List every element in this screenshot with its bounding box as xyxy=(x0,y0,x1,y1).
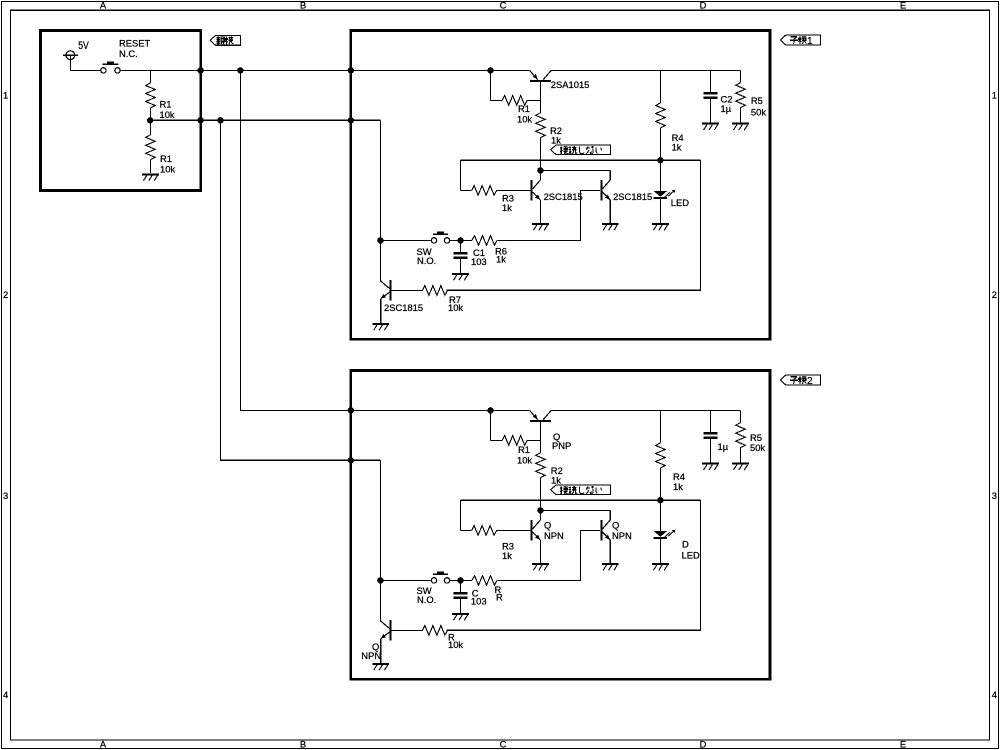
ground debounce capacitor xyxy=(452,613,469,615)
resistor R4 lead xyxy=(659,410,661,443)
svg-text:E: E xyxy=(900,0,906,11)
capacitor C2 xyxy=(704,92,718,95)
wire switch to C node xyxy=(450,579,461,581)
resistor R1 lower lead xyxy=(149,108,151,120)
svg-text:10k: 10k xyxy=(517,455,532,466)
svg-text:B: B xyxy=(300,0,306,11)
junction dot base feedback xyxy=(487,407,493,413)
wire R2 to collector node xyxy=(539,478,541,511)
svg-text:1k: 1k xyxy=(502,202,512,213)
wire signal drop to switch line xyxy=(379,460,381,580)
wire collector rail right xyxy=(551,69,740,71)
ground latch emitter xyxy=(372,663,389,665)
wire to R3 xyxy=(460,529,471,531)
ground emitter xyxy=(602,563,619,565)
capacitor C lead xyxy=(460,580,462,591)
ground capacitor xyxy=(702,463,719,465)
wire Q2 base path xyxy=(498,190,601,240)
wire collector node to Q2 xyxy=(540,509,610,511)
svg-text:50k: 50k xyxy=(751,106,766,117)
ground latch emitter xyxy=(372,323,389,325)
wire feedback to R1 xyxy=(491,439,503,441)
resistor R2 xyxy=(536,453,546,478)
wire R3 to Q1 base xyxy=(497,189,531,191)
wire R4 to LED node xyxy=(659,128,661,160)
junction dots on reset line xyxy=(197,117,203,123)
junction dot C node xyxy=(457,577,463,583)
wire feedback drop xyxy=(490,70,492,100)
svg-text:C: C xyxy=(500,738,507,749)
capacitor C xyxy=(454,592,468,595)
svg-text:N.C.: N.C. xyxy=(119,48,138,59)
capacitor C2 lead xyxy=(710,70,712,92)
resistor R5 xyxy=(736,423,746,448)
svg-text:1k: 1k xyxy=(502,550,512,561)
junction divider node xyxy=(147,117,153,123)
wire signal line into box xyxy=(351,119,381,121)
power symbol 5V xyxy=(63,51,78,71)
svg-text:2SC1815: 2SC1815 xyxy=(613,191,652,202)
transistor Q PNP xyxy=(530,410,552,440)
LED D xyxy=(654,530,676,538)
wire signal drop to switch line xyxy=(379,120,381,240)
ground emitter xyxy=(532,223,549,225)
resistor R1 (upper) xyxy=(146,83,156,108)
capacitor C1 lead xyxy=(460,240,462,251)
wire collector node to Q2 xyxy=(540,169,610,171)
svg-text:A: A xyxy=(100,0,107,11)
wire feedback loop horizontal xyxy=(460,159,700,161)
svg-text:103: 103 xyxy=(471,596,487,607)
svg-text:1µ: 1µ xyxy=(718,441,729,452)
wire R2 to collector node xyxy=(539,138,541,171)
svg-text:2: 2 xyxy=(992,289,997,300)
ground debounce capacitor xyxy=(452,273,469,275)
wire right feedback loop xyxy=(447,160,701,290)
svg-text:Q: Q xyxy=(612,520,619,531)
resistor R6 xyxy=(472,236,497,246)
flag oyaki label xyxy=(210,35,240,45)
pushbutton switch SW N.O. xyxy=(431,571,449,583)
svg-text:5V: 5V xyxy=(78,40,89,52)
svg-text:C: C xyxy=(500,0,507,11)
flag child unit 1 xyxy=(780,35,820,45)
resistor R2 xyxy=(536,113,546,138)
svg-text:1k: 1k xyxy=(672,142,682,153)
resistor R5 lead xyxy=(740,70,742,82)
transistor 2SA1015 PNP xyxy=(530,70,552,100)
resistor R base lead xyxy=(392,629,423,631)
LED LED xyxy=(654,190,676,198)
svg-text:LED: LED xyxy=(671,197,689,208)
vertical feed wire 5V to child2 xyxy=(240,70,529,410)
wire R5 to ground xyxy=(740,108,742,123)
ground capacitor xyxy=(702,123,719,125)
junction dot LED node xyxy=(657,497,663,503)
junction dot switch line left xyxy=(377,577,383,583)
svg-text:2SC1815: 2SC1815 xyxy=(384,302,423,313)
resistor R1 horizontal xyxy=(502,436,527,446)
wire R1 to base xyxy=(527,99,540,101)
wire Q2 base path xyxy=(498,530,601,580)
svg-text:10k: 10k xyxy=(448,302,463,313)
junction dot rail at box edge xyxy=(348,407,354,413)
resistor R1 (lower) xyxy=(146,135,156,160)
svg-text:N.O.: N.O. xyxy=(417,594,436,605)
resistor R1 horizontal xyxy=(502,96,527,106)
wire feedback loop left drop xyxy=(459,500,461,530)
resistor R3 xyxy=(472,526,497,536)
svg-text:10k: 10k xyxy=(160,164,175,175)
vertical feed wire signal to child2 xyxy=(221,120,381,460)
svg-text:10k: 10k xyxy=(160,109,175,120)
svg-text:2: 2 xyxy=(3,289,8,300)
svg-text:NPN: NPN xyxy=(544,530,564,541)
svg-text:2: 2 xyxy=(807,376,813,387)
transistor 2SC1815 NPN latch xyxy=(380,240,390,323)
svg-text:3: 3 xyxy=(3,490,8,501)
ground R5 xyxy=(732,123,749,125)
svg-text:50k: 50k xyxy=(750,442,765,453)
junction dot collector node xyxy=(537,167,543,173)
svg-text:R1: R1 xyxy=(518,444,530,455)
svg-text:1: 1 xyxy=(3,90,8,101)
wire R3 to Q1 base xyxy=(497,529,531,531)
svg-text:E: E xyxy=(900,738,906,749)
wire LED cathode xyxy=(659,199,661,223)
svg-text:PNP: PNP xyxy=(552,440,571,451)
pushbutton switch RESET N.C. xyxy=(101,61,121,73)
ground emitter xyxy=(532,563,549,565)
svg-text:A: A xyxy=(100,738,107,749)
svg-text:D: D xyxy=(700,0,707,11)
ground emitter xyxy=(602,223,619,225)
svg-text:N.O.: N.O. xyxy=(417,255,436,266)
resistor R1 second lower lead xyxy=(149,160,151,173)
svg-text:1k: 1k xyxy=(551,475,561,486)
svg-text:10k: 10k xyxy=(517,114,532,125)
transistor Q NPN latch xyxy=(380,580,390,663)
capacitor C lead xyxy=(710,410,712,432)
resistor R xyxy=(472,576,497,586)
transistor Q2 NPN Q NPN xyxy=(601,510,610,563)
junction dot switch line left xyxy=(377,237,383,243)
pushbutton switch SW N.O. xyxy=(431,231,449,243)
transistor Q1 NPN Q NPN xyxy=(532,510,541,563)
flag do-not-connect xyxy=(551,485,611,494)
junction dot signal at box edge xyxy=(348,117,354,123)
svg-text:1k: 1k xyxy=(496,253,506,264)
transistor Q1 NPN 2SC1815 xyxy=(532,170,541,223)
resistor R2 lead xyxy=(539,100,541,112)
resistor R7 base lead xyxy=(392,289,423,291)
junction dots on rail xyxy=(197,67,203,73)
wire feedback to R1 xyxy=(491,99,503,101)
wire to switch xyxy=(380,239,431,241)
junction dot collector node xyxy=(537,507,543,513)
wire LED anode xyxy=(659,500,661,531)
svg-text:R1: R1 xyxy=(518,103,530,114)
svg-text:10k: 10k xyxy=(448,639,463,650)
wire to R3 xyxy=(460,189,471,191)
junction dot signal at box edge xyxy=(348,457,354,463)
junction dot rail at box edge xyxy=(348,67,354,73)
parent unit box (oya-ki) xyxy=(41,30,201,190)
resistor R4 lead xyxy=(659,70,661,103)
wire switch to C node xyxy=(450,239,461,241)
wire LED anode xyxy=(659,160,661,191)
svg-text:2SA1015: 2SA1015 xyxy=(551,79,590,90)
svg-text:103: 103 xyxy=(471,256,487,267)
wire feedback loop left drop xyxy=(459,160,461,190)
wire feedback drop xyxy=(490,410,492,440)
svg-text:3: 3 xyxy=(992,490,997,501)
wire 5V to switch xyxy=(70,69,100,71)
junction dot LED node xyxy=(657,157,663,163)
resistor R1 upper lead xyxy=(149,70,151,83)
capacitor lower lead xyxy=(460,599,462,613)
svg-text:NPN: NPN xyxy=(361,650,381,661)
capacitor lower lead xyxy=(710,99,712,123)
wire R1 to base xyxy=(527,439,540,441)
svg-text:D: D xyxy=(700,738,707,749)
wire LED cathode xyxy=(659,539,661,563)
flag child unit 2 xyxy=(780,375,820,385)
svg-text:R: R xyxy=(496,592,503,603)
wire R5 to ground xyxy=(740,448,742,463)
svg-text:R1: R1 xyxy=(160,153,172,164)
wire right feedback loop xyxy=(447,500,701,630)
ground below divider xyxy=(142,173,159,175)
resistor R5 xyxy=(736,83,746,108)
wire to switch xyxy=(380,579,431,581)
svg-text:D: D xyxy=(682,539,689,550)
resistor R xyxy=(422,626,447,636)
svg-text:4: 4 xyxy=(3,689,8,700)
junction dot base feedback xyxy=(487,67,493,73)
wire switch to node rail xyxy=(120,69,240,71)
resistor R2 lead xyxy=(539,440,541,452)
flag do-not-connect xyxy=(551,145,611,154)
resistor R4 xyxy=(656,103,666,128)
svg-text:B: B xyxy=(300,738,306,749)
capacitor lower lead xyxy=(710,439,712,463)
resistor R3 xyxy=(472,186,497,196)
junction dot C node xyxy=(457,237,463,243)
wire divider node to right xyxy=(150,119,380,121)
svg-text:RESET: RESET xyxy=(119,38,151,49)
svg-text:1k: 1k xyxy=(673,481,683,492)
transistor Q2 NPN 2SC1815 xyxy=(601,170,610,223)
capacitor C1 xyxy=(454,252,468,255)
svg-text:1: 1 xyxy=(807,36,813,47)
capacitor lower lead xyxy=(460,259,462,273)
resistor R6 lead xyxy=(461,239,473,241)
ground R5 xyxy=(732,463,749,465)
svg-text:NPN: NPN xyxy=(612,530,632,541)
svg-text:1µ: 1µ xyxy=(721,103,732,114)
wire collector rail right xyxy=(551,409,740,411)
ground LED xyxy=(652,223,669,225)
svg-text:R5: R5 xyxy=(751,95,763,106)
child unit box 1 xyxy=(351,30,770,339)
svg-text:4: 4 xyxy=(992,689,997,700)
svg-text:1k: 1k xyxy=(551,135,561,146)
resistor R1 second upper lead xyxy=(149,120,151,135)
wire R4 to LED node xyxy=(659,468,661,500)
resistor R4 xyxy=(656,443,666,468)
resistor R lead xyxy=(461,579,473,581)
wire 5V rail to child1 xyxy=(240,69,530,71)
svg-text:Q: Q xyxy=(544,520,551,531)
resistor R5 lead xyxy=(740,410,742,422)
resistor R7 xyxy=(422,286,447,296)
svg-text:R1: R1 xyxy=(160,99,172,110)
child unit box 2 xyxy=(351,370,770,679)
wire feedback loop horizontal xyxy=(460,499,700,501)
svg-text:LED: LED xyxy=(682,549,700,560)
capacitor C xyxy=(704,432,718,435)
svg-text:2SC1815: 2SC1815 xyxy=(544,191,583,202)
ground LED xyxy=(652,563,669,565)
svg-text:1: 1 xyxy=(992,90,997,101)
